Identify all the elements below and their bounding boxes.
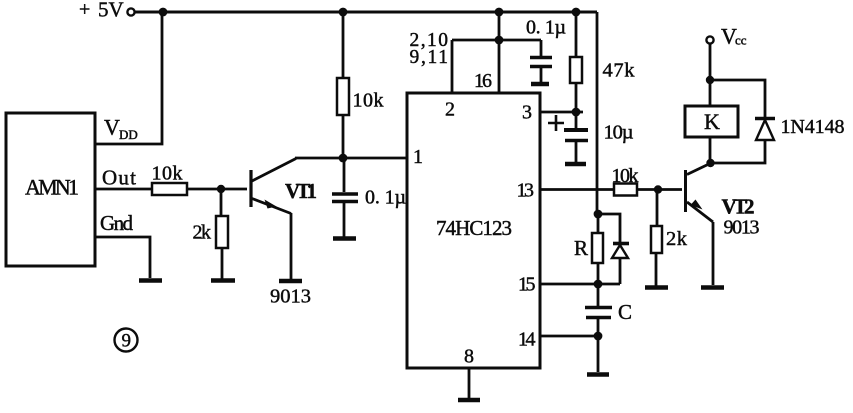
node: VT2 base junction (654, 185, 662, 193)
wire: +5V top rail (135, 11, 597, 14)
wire: pin 16 up to rail (498, 12, 501, 93)
resistor 2k (VT2 base) (651, 226, 688, 253)
svg-text:14: 14 (518, 329, 536, 351)
svg-text:2k: 2k (666, 228, 688, 250)
wire: pin 3 to node (540, 111, 583, 114)
svg-text:16: 16 (474, 70, 492, 92)
node: rail junction to 47k (572, 8, 581, 17)
node: pin 15 junction (594, 280, 603, 289)
ground (under VT2 2k) (645, 285, 668, 290)
wire: pin 14 (540, 335, 598, 338)
svg-text:+: + (79, 0, 90, 21)
svg-text:10k: 10k (612, 165, 639, 187)
svg-text:Out: Out (102, 166, 136, 190)
svg-text:5V: 5V (98, 0, 124, 22)
wire: 2k to ground (221, 248, 224, 279)
wire: rail to 10k pullup (342, 12, 345, 78)
wire: collector node to relay (709, 137, 712, 163)
wire: pin 15 (540, 283, 598, 286)
Vcc supply terminal (706, 24, 746, 81)
node: tie line junction (495, 36, 504, 45)
svg-text:V: V (104, 115, 120, 140)
wire: +5V drop line to R (596, 12, 599, 214)
wire: junction to 2k (656, 190, 659, 227)
resistor 47k (570, 57, 635, 83)
diode 1N4148 (flyback) (710, 80, 845, 163)
svg-text:Gnd: Gnd (100, 211, 134, 235)
wire: Out to resistor (95, 188, 152, 191)
node: pin1 junction (339, 154, 348, 163)
svg-text:10µ: 10µ (604, 122, 634, 144)
node: R / diode top junction (594, 210, 603, 219)
ground (under 10u) (565, 162, 586, 167)
svg-text:2: 2 (445, 99, 455, 121)
wire: relay top to Vcc node (709, 80, 712, 106)
svg-text:47k: 47k (603, 60, 636, 82)
svg-text:10k: 10k (353, 90, 384, 112)
svg-text:9013: 9013 (724, 217, 760, 239)
+5V supply terminal (79, 0, 135, 22)
wire: pin 13 to 10k (540, 188, 614, 191)
svg-text:1: 1 (413, 146, 423, 168)
svg-text:15: 15 (518, 274, 536, 296)
svg-text:0. 1µ: 0. 1µ (526, 17, 566, 39)
svg-text:9,11: 9,11 (410, 47, 449, 68)
node: pin 14 junction (594, 332, 603, 341)
capacitor 0.1u (decoupling) (526, 17, 566, 83)
resistor 10k (VT2 base) (612, 165, 639, 196)
resistor R (timing) (574, 214, 603, 284)
capacitor 10u electrolytic (548, 112, 634, 162)
svg-text:DD: DD (119, 127, 138, 142)
ground (AMN1) (139, 278, 162, 283)
ground (under 0.1u) (333, 236, 356, 241)
wire: 2k to ground (655, 253, 658, 286)
diode (parallel with R) (598, 214, 629, 284)
resistor 10k (AMN1 output) (152, 163, 188, 196)
IC U1 74HC123 (407, 93, 540, 368)
node: VT2 collector / relay junction (706, 159, 714, 167)
wire: VT1 emitter to ground (290, 213, 293, 279)
svg-text:0. 1µ: 0. 1µ (365, 187, 406, 209)
svg-text:3: 3 (522, 102, 532, 124)
svg-text:9013: 9013 (270, 286, 311, 308)
wire: rail to 47k (575, 12, 578, 57)
svg-text:10k: 10k (152, 163, 183, 185)
ground (VT1 emitter) (279, 279, 302, 284)
wire: AMN1 Gnd to ground (95, 237, 150, 278)
wire: 10k to VT2 base (637, 188, 682, 191)
transistor VT2 (686, 163, 760, 239)
svg-text:R: R (574, 236, 588, 260)
wire: pin 8 to ground (468, 368, 471, 398)
svg-text:K: K (704, 109, 720, 134)
wire: 10k to pin1 node (342, 115, 345, 158)
pin label VDD (104, 115, 138, 143)
wire: resistor to VT1 base (187, 188, 247, 191)
wire: rail to AMN1 VDD pin (95, 12, 162, 144)
wire: 47k to pin 3 node (575, 83, 578, 112)
node: Vcc junction (706, 76, 714, 84)
node: rail junction to 10k pullup (339, 8, 348, 17)
svg-text:13: 13 (517, 180, 535, 202)
ground (VT2 emitter) (701, 285, 724, 290)
sensor module AMN1 (6, 113, 95, 266)
figure number 9 (115, 329, 138, 352)
svg-text:cc: cc (735, 33, 747, 48)
node: rail junction to pin16 (495, 8, 504, 17)
svg-text:74HC123: 74HC123 (436, 216, 512, 240)
node: rail junction to VDD (159, 8, 168, 17)
wire: VT2 emitter to ground (712, 222, 715, 285)
ground (under decoupling cap) (531, 82, 549, 87)
svg-text:AMN1: AMN1 (25, 175, 79, 200)
resistor 10k (pullup to pin1) (337, 78, 384, 115)
svg-text:2k: 2k (193, 222, 212, 244)
wire: junction down to 2k (220, 189, 223, 216)
node: pin 3 junction (572, 108, 581, 117)
transistor VT1 (251, 159, 317, 214)
svg-text:1N4148: 1N4148 (781, 116, 845, 138)
node: base / 2k junction (217, 185, 225, 193)
wire: pin 2 up to tie line (451, 40, 454, 93)
wire: tie line pins 2,10,9,11,16 (452, 39, 541, 42)
svg-text:VT1: VT1 (285, 179, 317, 203)
svg-text:VT2: VT2 (722, 195, 755, 219)
ground (pin 8) (458, 398, 480, 403)
svg-text:8: 8 (464, 346, 474, 368)
relay K (685, 106, 738, 137)
ground (under C) (587, 372, 609, 377)
svg-text:C: C (618, 300, 632, 324)
resistor 2k (VT1 base) (193, 216, 229, 248)
svg-text:9: 9 (122, 331, 132, 352)
wire: VT1 collector line to IC pin 1 (295, 157, 407, 160)
capacitor 0.1u (at pin 1) (332, 158, 406, 237)
ground (under 2k) (211, 278, 235, 283)
capacitor C (timing) (585, 284, 632, 372)
